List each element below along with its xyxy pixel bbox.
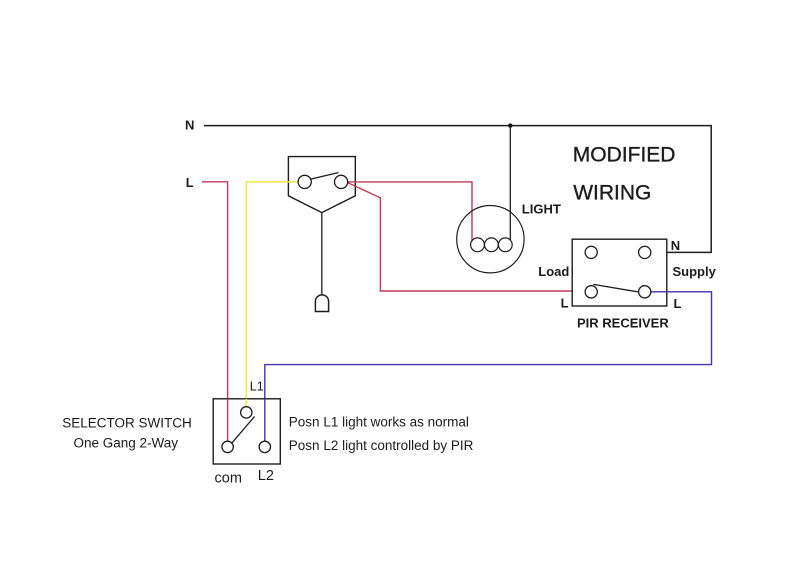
wire red tail into box to com terminal (227, 399, 229, 441)
wire red from pull-switch right terminal to lamp live terminal (348, 182, 472, 241)
svg-text:One Gang 2-Way: One Gang 2-Way (74, 435, 179, 450)
svg-text:N: N (185, 118, 194, 133)
svg-text:PIR RECEIVER: PIR RECEIVER (577, 316, 669, 331)
pull-cord switch lever (310, 173, 338, 180)
PIR terminal bottom-left (load L) (585, 286, 597, 298)
wire lamp neutral drop (black) from N junction to lamp terminal (509, 126, 511, 241)
svg-text:com: com (215, 470, 242, 486)
svg-text:L: L (561, 296, 569, 311)
pull-cord switch left terminal (298, 175, 311, 188)
svg-text:L2: L2 (258, 468, 274, 484)
wire purple from PIR L supply terminal to selector L2 terminal (265, 292, 712, 442)
svg-text:L: L (674, 296, 682, 311)
selector terminal com (bottom-left) (222, 441, 233, 452)
selector terminal L1 (top) (241, 407, 252, 418)
pull-cord switch body (pentagon) (288, 157, 355, 213)
svg-text:L1: L1 (250, 380, 264, 394)
svg-text:WIRING: WIRING (573, 182, 651, 205)
selector switch lever (231, 416, 254, 443)
pull cord string (321, 213, 323, 295)
PIR internal switch lever (593, 284, 638, 292)
svg-text:L: L (186, 175, 194, 190)
wire L live (red) from L label to selector com terminal (202, 182, 228, 441)
svg-text:Supply: Supply (673, 264, 717, 279)
wire purple tail into box to L2 terminal (264, 399, 266, 442)
svg-text:N: N (671, 238, 680, 253)
PIR terminal top-right (supply N) (639, 246, 651, 258)
selector terminal L2 (bottom-right) (259, 441, 270, 452)
node junction dot on N bus above lamp (508, 123, 512, 127)
svg-text:MODIFIED: MODIFIED (573, 144, 676, 167)
lamp (LIGHT) outline circle (457, 206, 524, 273)
wire yellow strapper from selector L1 up and to pull-switch left terminal (246, 182, 298, 407)
pull-cord switch right terminal (335, 175, 348, 188)
selector switch box (213, 399, 280, 464)
wire N bus (black): top run, right drop, into PIR Supply N terminal (204, 126, 711, 253)
PIR terminal N (top-left: load N) (585, 246, 597, 258)
pull cord knob (315, 295, 328, 312)
PIR receiver box (572, 239, 667, 306)
svg-text:LIGHT: LIGHT (522, 201, 561, 216)
lamp terminal circles (471, 238, 485, 252)
svg-text:SELECTOR SWITCH: SELECTOR SWITCH (62, 415, 192, 430)
wire red from pull-switch right terminal to PIR Load L terminal (348, 183, 586, 291)
svg-text:Posn L1 light works as normal: Posn L1 light works as normal (289, 414, 469, 429)
svg-text:Posn L2 light controlled by PI: Posn L2 light controlled by PIR (289, 438, 474, 453)
wire yellow tail into box to L1 terminal (245, 399, 247, 407)
svg-text:Load: Load (538, 264, 569, 279)
PIR terminal bottom-right (supply L) (639, 286, 651, 298)
